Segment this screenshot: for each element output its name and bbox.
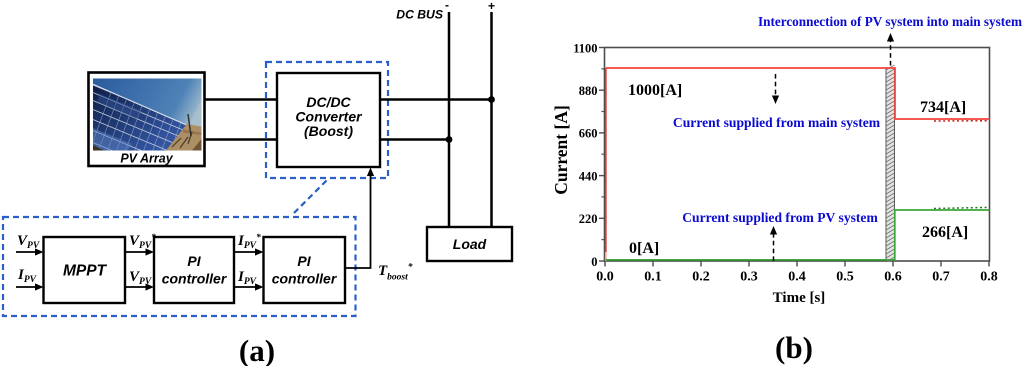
svg-text:Tboost*: Tboost*: [378, 262, 413, 283]
Load box: [427, 227, 512, 261]
svg-text:734[A]: 734[A]: [920, 99, 966, 116]
PI controller box 2: [264, 237, 346, 303]
svg-text:MPPT: MPPT: [63, 263, 108, 280]
svg-text:0.7: 0.7: [932, 270, 950, 285]
wire PV to converter (top): [205, 98, 278, 100]
svg-text:IPV: IPV: [237, 269, 257, 287]
DC/DC converter box U1: [277, 73, 380, 167]
dashed controller group box: [3, 217, 356, 316]
PV Array photo frame: [89, 73, 205, 167]
dashed arrow up to interconnection title: [887, 33, 894, 66]
main system current trace (red): [605, 250, 607, 261]
DC BUS positive rail: [490, 12, 493, 227]
PV Array photo: sky: [93, 79, 202, 151]
arrow PI1 to PI2 (Ipv*): [234, 248, 264, 255]
svg-text:PI: PI: [297, 253, 311, 269]
svg-text:0.8: 0.8: [980, 270, 998, 285]
svg-text:(Boost): (Boost): [304, 123, 353, 139]
dashed arrow down to main-system label: [772, 74, 779, 104]
input arrow Ipv: [16, 283, 44, 290]
svg-text:+: +: [488, 0, 495, 13]
PV Array photo: dirt shadow bottom-left: [93, 145, 104, 151]
arrow PI1 to PI2 (Ipv): [234, 283, 264, 290]
svg-text:Current supplied from PV syste: Current supplied from PV system: [682, 210, 878, 225]
svg-text:0.5: 0.5: [836, 270, 854, 285]
svg-text:1100: 1100: [573, 41, 597, 55]
svg-text:0.1: 0.1: [644, 270, 662, 285]
svg-text:880: 880: [579, 84, 598, 98]
svg-text:controller: controller: [272, 271, 338, 287]
svg-text:(b): (b): [775, 330, 813, 365]
dashed leader line controller to converter: [294, 180, 327, 213]
svg-text:220: 220: [579, 212, 598, 226]
x axis major ticks: [605, 261, 989, 267]
y axis minor ticks: [602, 69, 605, 240]
svg-text:VPV: VPV: [129, 269, 152, 287]
PV Array photo: ground dark streaks: [183, 130, 202, 136]
svg-text:0.2: 0.2: [692, 270, 710, 285]
label DC/DC Converter (Boost): [295, 94, 363, 139]
dashed arrow up from PV-system label: [770, 226, 777, 261]
wire converter to -bus (bottom): [380, 138, 449, 140]
svg-text:Time [s]: Time [s]: [773, 290, 826, 306]
PV Array photo: support pole: [188, 114, 191, 136]
svg-text:440: 440: [579, 169, 598, 183]
arrow MPPT to PI1 (Vpv*): [125, 248, 154, 255]
PV Array photo: panel row lines: [88, 83, 206, 203]
svg-text:Current [A]: Current [A]: [551, 105, 571, 195]
PV system reference dotted (dark green): [934, 207, 988, 208]
x tick labels: [596, 270, 998, 285]
svg-text:660: 660: [579, 127, 598, 141]
transient hatch band at t=0.6: [886, 65, 895, 262]
svg-text:Interconnection of PV system i: Interconnection of PV system into main s…: [758, 14, 1022, 29]
svg-text:VPV: VPV: [17, 233, 40, 251]
svg-text:0.3: 0.3: [740, 270, 758, 285]
PV Array photo: panel column lines: [88, 84, 231, 155]
DC BUS negative rail: [448, 12, 451, 227]
svg-text:1000[A]: 1000[A]: [628, 82, 682, 99]
y axis major ticks: [599, 48, 605, 262]
PV system current trace (green): [606, 210, 990, 260]
svg-text:0: 0: [591, 255, 597, 269]
PV Array photo: bright panel reflections: [93, 94, 142, 151]
svg-text:Load: Load: [453, 236, 487, 252]
svg-text:(a): (a): [239, 333, 275, 366]
wire PV to converter (bottom): [205, 138, 278, 140]
svg-text:IPV*: IPV*: [237, 232, 261, 251]
svg-text:VPV*: VPV*: [129, 232, 156, 251]
wire PI2 output to converter with arrow: [345, 168, 374, 269]
label PI controller 2: [272, 253, 338, 287]
PV Array photo: panel support struts: [172, 132, 192, 148]
PV Array photo: solar panel plane: [93, 85, 186, 151]
svg-text:PV Array: PV Array: [120, 152, 173, 166]
PV Array photo: ground: [160, 124, 202, 151]
MPPT box: [44, 237, 126, 303]
wire converter to +bus (top): [380, 98, 492, 100]
svg-text:0.6: 0.6: [884, 270, 902, 285]
junction node on +bus: [488, 96, 495, 103]
y tick labels: [573, 41, 597, 268]
svg-text:Current supplied from main sys: Current supplied from main system: [673, 115, 881, 130]
svg-text:IPV: IPV: [17, 267, 37, 285]
svg-text:-: -: [445, 0, 449, 12]
label PI controller 1: [162, 253, 228, 287]
svg-text:PI: PI: [187, 253, 201, 269]
svg-text:0.4: 0.4: [788, 270, 806, 285]
svg-text:0[A]: 0[A]: [629, 240, 659, 257]
main system reference dotted (dark red): [934, 120, 988, 122]
svg-text:266[A]: 266[A]: [922, 224, 968, 241]
svg-text:0.0: 0.0: [596, 270, 614, 285]
arrow MPPT to PI1 (Vpv): [125, 283, 154, 290]
svg-text:DC BUS: DC BUS: [396, 8, 443, 22]
input arrow Vpv: [16, 248, 44, 255]
dashed highlight box around converter: [266, 62, 388, 178]
junction node on -bus: [446, 136, 453, 143]
PI controller box 1: [154, 237, 234, 303]
svg-text:controller: controller: [162, 271, 228, 287]
chart plot frame: [605, 48, 990, 262]
